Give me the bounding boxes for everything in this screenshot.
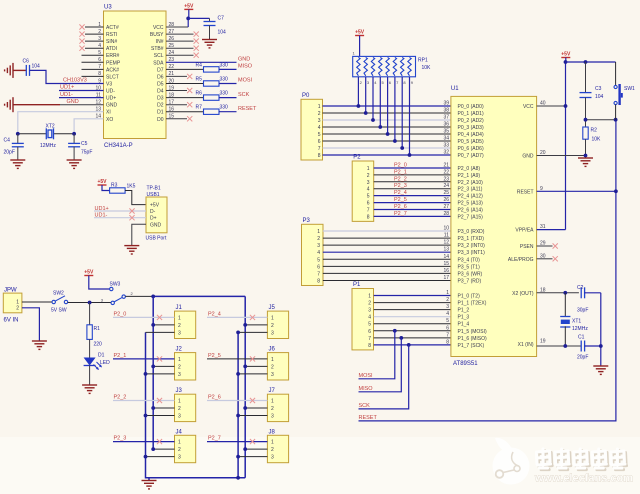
wire U1 VCC to +5V rail (537, 105, 566, 107)
svg-text:AT89S51: AT89S51 (453, 361, 478, 367)
svg-text:104: 104 (595, 94, 604, 100)
svg-text:GND: GND (522, 154, 534, 160)
wire J7 pin2 to +5V rail (245, 407, 267, 409)
junction X2 (563, 291, 567, 295)
svg-text:2: 2 (16, 306, 19, 312)
no-connect X U3 pin 21 (187, 74, 192, 79)
svg-text:P2_2: P2_2 (394, 176, 407, 182)
svg-text:4: 4 (446, 311, 449, 317)
svg-text:ATDI: ATDI (106, 46, 117, 52)
svg-text:XT1: XT1 (572, 319, 581, 325)
svg-text:RESET: RESET (359, 415, 378, 421)
svg-text:P3_5 (T1): P3_5 (T1) (458, 264, 481, 270)
svg-text:1: 1 (317, 229, 320, 235)
crystal XT2 12MHz (46, 128, 53, 139)
wire net UD1+ to U3 UD- (59, 90, 104, 92)
capacitor C7 104 (204, 22, 216, 26)
svg-text:27: 27 (443, 204, 449, 210)
svg-text:VCC: VCC (153, 25, 164, 31)
svg-text:RESET: RESET (517, 189, 534, 195)
junction +5V/C7 (186, 17, 190, 21)
svg-text:P2_5: P2_5 (394, 197, 407, 203)
svg-text:1: 1 (178, 315, 181, 321)
svg-text:13: 13 (443, 247, 449, 253)
wire J4 pin2 to +5V rail (153, 448, 174, 450)
svg-text:3: 3 (368, 308, 371, 314)
svg-text:RSTI: RSTI (106, 32, 117, 38)
svg-text:RESET: RESET (238, 106, 257, 112)
wire J5 pin3 to ground rail (238, 331, 267, 333)
svg-text:+5V: +5V (561, 52, 571, 58)
wire right jumper ground rail (237, 332, 239, 477)
wire ground to C6 (13, 69, 26, 71)
svg-text:330: 330 (220, 77, 229, 83)
svg-text:D6: D6 (157, 74, 164, 80)
svg-text:10K: 10K (592, 137, 602, 143)
svg-text:J8: J8 (269, 429, 276, 435)
svg-text:P0_7 (AD7): P0_7 (AD7) (458, 153, 484, 159)
svg-text:5: 5 (318, 132, 321, 138)
svg-text:3: 3 (178, 455, 181, 461)
no-connect X J5 pin1 (250, 315, 255, 320)
wire net P2_3 to J4 pin1 (113, 441, 175, 443)
overlines on U1 P3 names (471, 242, 484, 244)
wires P1 connector to U1 P1 port (374, 295, 451, 297)
wire U1 EA/VPP to rail (537, 229, 566, 231)
svg-text:P2_1: P2_1 (394, 169, 407, 175)
svg-text:1: 1 (368, 294, 371, 300)
wire R4 to net MISO (219, 68, 237, 70)
wire junction to R1 (89, 303, 91, 325)
svg-text:ERR#: ERR# (106, 53, 120, 59)
junction C1 rail (599, 344, 603, 348)
svg-text:P1_5 (MOSI): P1_5 (MOSI) (458, 329, 488, 335)
svg-text:SCK: SCK (238, 92, 250, 98)
wire net P2_6 to J7 pin1 (207, 400, 267, 402)
svg-text:P2_3 (A11): P2_3 (A11) (458, 187, 483, 193)
no-connect X J2 pin1 (157, 356, 162, 361)
wire R6 to net SCK (219, 97, 237, 99)
wire ground stub jumper field (148, 478, 150, 481)
wire net MOSI (359, 331, 395, 379)
resistor R7 330 (204, 109, 220, 114)
no-connect X J6 pin1 (250, 356, 255, 361)
wire C1 to rail (585, 345, 601, 347)
+5V power at RP1 (355, 30, 365, 36)
wire U3 D3 to R6 (166, 97, 204, 99)
svg-text:3: 3 (178, 414, 181, 420)
connector J7 (267, 394, 288, 421)
svg-text:P1_0 (T2): P1_0 (T2) (458, 294, 481, 300)
svg-text:2: 2 (367, 173, 370, 179)
resistor R1 220 (87, 325, 92, 340)
svg-text:5: 5 (446, 318, 449, 324)
svg-text:1: 1 (271, 357, 274, 363)
svg-text:CH341A-P: CH341A-P (104, 143, 133, 149)
svg-text:SCK: SCK (359, 403, 371, 409)
svg-text:JPW: JPW (4, 288, 17, 294)
wire SW1 to RST rail (615, 105, 617, 120)
wire C6 to U3 V3 pin (30, 70, 104, 83)
svg-text:D1: D1 (98, 353, 105, 359)
wire U1 X2 to crystal (537, 292, 579, 294)
svg-text:USB1: USB1 (147, 192, 160, 198)
svg-text:UD1-: UD1- (60, 92, 73, 98)
svg-text:PSEN: PSEN (520, 244, 534, 250)
wires P3 connector to U1 P3 port (323, 230, 451, 232)
svg-text:P3_4 (T0): P3_4 (T0) (458, 257, 481, 263)
wire U1 X1 to crystal (537, 345, 582, 347)
junction crystal right (72, 132, 76, 136)
svg-text:11: 11 (444, 233, 449, 239)
svg-text:3: 3 (271, 414, 274, 420)
svg-text:C2: C2 (577, 285, 584, 291)
svg-text:P2_2: P2_2 (114, 395, 127, 401)
wire U3 pin 21 stub (166, 75, 187, 77)
connector P3 (302, 224, 324, 285)
crystal XT1 12MHz (564, 293, 566, 317)
svg-text:P2_0 (A8): P2_0 (A8) (458, 166, 481, 172)
wire R3 to USB VCC pin (125, 191, 146, 205)
svg-text:2: 2 (178, 406, 181, 412)
wire U3 pin 24 stub (166, 54, 194, 56)
wire C2 to rail (585, 292, 601, 294)
wire SW3 to +5V rail of jumper field (125, 295, 153, 297)
connector J4 (175, 435, 196, 462)
ground under LED (82, 385, 97, 393)
no-connect X U3 pin 2 (79, 32, 84, 37)
no-connect X U3 pin 26 (194, 39, 199, 44)
svg-text:P2: P2 (353, 155, 361, 161)
wire U3 pin 15 stub (166, 118, 187, 120)
svg-text:P3_3 (INT1): P3_3 (INT1) (458, 250, 486, 256)
svg-text:39: 39 (443, 101, 449, 107)
svg-text:12MHz: 12MHz (572, 326, 588, 332)
wire U3 pin 19 stub (166, 90, 187, 92)
svg-text:15: 15 (443, 261, 449, 267)
svg-text:1: 1 (367, 166, 370, 172)
svg-text:2: 2 (178, 447, 181, 453)
svg-text:7: 7 (368, 336, 371, 342)
svg-text:MISO: MISO (238, 64, 253, 70)
svg-text:XI: XI (106, 110, 111, 116)
+5V power at USB (97, 179, 107, 185)
svg-text:5: 5 (367, 194, 370, 200)
wire U3 pin 6 stub (82, 61, 104, 63)
svg-text:3: 3 (317, 243, 320, 249)
svg-text:16: 16 (443, 268, 449, 274)
wire SW2 to junction (68, 302, 111, 304)
no-connect X J8 pin1 (250, 439, 255, 444)
ground at JPW (32, 341, 47, 349)
svg-text:X2 (OUT): X2 (OUT) (512, 291, 534, 297)
wire net P2_5 to J6 pin1 (207, 358, 267, 360)
svg-text:P2_3: P2_3 (114, 436, 127, 442)
svg-text:UD+: UD+ (106, 96, 116, 102)
wire U3 D7 to R4 (166, 68, 204, 70)
switch SW3 (110, 287, 113, 290)
wire U1 RESET pin 9 to rail (537, 190, 616, 192)
ground under crystal caps (593, 366, 608, 374)
svg-text:37: 37 (443, 115, 449, 121)
capacitor C2 30pF (581, 287, 584, 298)
svg-text:SDA: SDA (153, 60, 164, 66)
wire C3 to R2 (585, 98, 587, 128)
svg-text:3: 3 (271, 455, 274, 461)
svg-text:SLCT: SLCT (106, 74, 119, 80)
svg-text:6V IN: 6V IN (4, 318, 19, 324)
wire R7 to net RESET (219, 111, 237, 113)
svg-text:P2_6: P2_6 (208, 395, 221, 401)
svg-text:D1: D1 (157, 110, 164, 116)
ground under C4 (10, 160, 25, 168)
svg-text:SW1: SW1 (624, 86, 635, 92)
resistor R4 330 (204, 67, 220, 72)
wire U1 PSEN stub (537, 245, 553, 247)
svg-text:4: 4 (368, 315, 371, 321)
svg-text:P1_6 (MISO): P1_6 (MISO) (458, 336, 488, 342)
wire ground to U3 GND pin (13, 104, 60, 106)
svg-text:21: 21 (443, 163, 449, 169)
svg-text:USB Port: USB Port (146, 236, 167, 242)
svg-text:1: 1 (178, 357, 181, 363)
wire U3 pin 26 stub (166, 40, 194, 42)
wire JPW pin1 to SW2 (22, 301, 52, 303)
no-connect X U3 pin 27 (194, 32, 199, 37)
wire U3 pin 7 stub (82, 68, 104, 70)
junction C3 top (584, 60, 588, 64)
svg-text:SCL: SCL (154, 53, 164, 59)
svg-text:5: 5 (317, 257, 320, 263)
switch SW2 5V SW (52, 300, 55, 303)
svg-text:P1_2: P1_2 (458, 308, 470, 314)
svg-text:P0_1 (AD1): P0_1 (AD1) (458, 111, 484, 117)
svg-text:2: 2 (178, 323, 181, 329)
wire +5V to SW1 (566, 61, 616, 63)
svg-text:22: 22 (443, 169, 449, 175)
wire U3 pin 25 stub (166, 47, 194, 49)
svg-text:35: 35 (443, 129, 449, 135)
wire USB GND to ground (132, 224, 146, 245)
svg-text:2: 2 (368, 301, 371, 307)
junction +5V top (564, 60, 568, 64)
wire crystal row (18, 133, 47, 135)
svg-text:+5V: +5V (355, 30, 365, 36)
svg-text:SW3: SW3 (110, 282, 121, 288)
svg-text:VCC: VCC (523, 104, 534, 110)
svg-text:+5V: +5V (84, 270, 94, 276)
wire crystal to C5 (73, 134, 75, 144)
svg-text:J4: J4 (176, 429, 183, 435)
ground at USB (124, 246, 139, 254)
svg-text:330: 330 (220, 105, 229, 111)
svg-text:D7: D7 (157, 67, 164, 73)
svg-text:P0_6 (AD6): P0_6 (AD6) (458, 146, 484, 152)
wire net UD1- to U3 UD+ (59, 97, 104, 99)
svg-text:+5V: +5V (184, 3, 194, 9)
svg-text:X1 (IN): X1 (IN) (518, 342, 534, 348)
svg-text:MOSI: MOSI (238, 78, 253, 84)
+5V power at reset circuit (561, 52, 571, 58)
svg-text:3: 3 (318, 118, 321, 124)
svg-text:P2_0: P2_0 (394, 163, 407, 169)
svg-text:2: 2 (318, 111, 321, 117)
junction left +5V rail (151, 295, 155, 299)
no-connect X U3 pin 17 (187, 102, 192, 107)
svg-text:P2_3: P2_3 (394, 183, 407, 189)
svg-text:4: 4 (318, 125, 321, 131)
svg-text:J5: J5 (269, 305, 276, 311)
svg-text:XT2: XT2 (46, 124, 55, 130)
svg-text:1: 1 (446, 290, 449, 296)
svg-text:UD1-: UD1- (95, 213, 108, 219)
wire crystal to C4 (17, 134, 19, 144)
svg-text:10K: 10K (422, 65, 432, 71)
svg-text:C5: C5 (81, 141, 88, 147)
wire R1 to LED (89, 339, 91, 357)
resistor R5 330 (204, 81, 220, 86)
svg-text:P2_4: P2_4 (394, 190, 407, 196)
svg-text:J6: J6 (269, 347, 276, 353)
svg-text:P3_1 (TXD): P3_1 (TXD) (458, 236, 485, 242)
svg-text:3: 3 (178, 372, 181, 378)
svg-text:MISO: MISO (359, 386, 374, 392)
wire U3 XI to crystal (18, 112, 104, 134)
svg-text:1: 1 (178, 440, 181, 446)
svg-text:UD1+: UD1+ (60, 85, 74, 91)
wire J8 pin3 to ground rail (238, 456, 267, 458)
svg-text:D4: D4 (157, 89, 164, 95)
svg-text:D0: D0 (157, 117, 164, 123)
svg-text:D5: D5 (157, 81, 164, 87)
wire U3 pin 17 stub (166, 104, 187, 106)
IC U3 CH341A body (104, 11, 167, 139)
wire J2 pin3 to ground rail (146, 373, 175, 375)
svg-text:32: 32 (443, 150, 449, 156)
svg-text:75pF: 75pF (81, 150, 92, 156)
svg-text:3: 3 (446, 304, 449, 310)
junction ground rail bottom (236, 476, 240, 480)
junction P1 SCK (407, 343, 411, 347)
svg-text:CH103V3: CH103V3 (63, 77, 87, 83)
wire U3 pin 27 stub (166, 33, 194, 35)
svg-text:R1: R1 (94, 326, 101, 332)
wire U1 ALE stub (537, 258, 553, 260)
no-connect X U3 pin 19 (187, 88, 192, 93)
svg-text:6: 6 (446, 325, 449, 331)
no-connect X J4 pin1 (157, 439, 162, 444)
svg-text:TP-B1: TP-B1 (147, 186, 161, 192)
wire U3 pin 4 stub (85, 47, 104, 49)
svg-text:P2_7: P2_7 (208, 436, 221, 442)
no-connect X J1 pin1 (157, 315, 162, 320)
capacitor C5 75pF (68, 143, 80, 146)
svg-text:1K5: 1K5 (127, 184, 136, 190)
connector P2 (352, 161, 374, 221)
svg-text:2: 2 (271, 406, 274, 412)
svg-text:17: 17 (443, 275, 449, 281)
svg-text:2: 2 (271, 323, 274, 329)
svg-text:P0_5 (AD5): P0_5 (AD5) (458, 139, 484, 145)
wire U1 GND pin to ground (537, 155, 586, 157)
wires P2 connector to U1 P2 port with net labels (374, 167, 451, 169)
svg-text:P1: P1 (353, 282, 361, 288)
svg-text:ACK#: ACK# (106, 67, 119, 73)
svg-text:www.elecfans.com: www.elecfans.com (534, 473, 633, 485)
svg-text:D3: D3 (157, 96, 164, 102)
wire R2 to ground (585, 139, 587, 158)
svg-text:33: 33 (443, 143, 449, 149)
svg-text:8: 8 (317, 278, 320, 284)
svg-text:36: 36 (443, 122, 449, 128)
junction LED branch (88, 301, 92, 305)
svg-text:P2_1 (A9): P2_1 (A9) (458, 173, 481, 179)
svg-text:P3_2 (INT0): P3_2 (INT0) (458, 243, 486, 249)
capacitor C4 20pF (12, 143, 24, 146)
svg-text:P2_5: P2_5 (208, 353, 221, 359)
junction RST rail (614, 118, 618, 122)
wire +5V to SW3 top contact (89, 276, 110, 290)
+5V power at SW3 (84, 270, 94, 276)
svg-text:P0_3 (AD3): P0_3 (AD3) (458, 125, 484, 131)
wire J6 pin3 to ground rail (238, 373, 267, 375)
wire U3 XO to crystal (74, 119, 103, 134)
svg-text:P2_2 (A10): P2_2 (A10) (458, 180, 484, 186)
svg-text:1: 1 (271, 315, 274, 321)
wire U3 pin 3 stub (85, 40, 104, 42)
svg-text:20pF: 20pF (4, 150, 15, 156)
ground at C6 (5, 63, 13, 78)
svg-text:RP1: RP1 (418, 58, 428, 64)
svg-text:P2_6 (A14): P2_6 (A14) (458, 208, 484, 214)
svg-text:5: 5 (368, 322, 371, 328)
wire U3 D1 to R7 (166, 111, 204, 113)
svg-text:12: 12 (443, 240, 449, 246)
wire net P2_1 to J2 pin1 (113, 358, 175, 360)
svg-text:P2_0: P2_0 (114, 311, 127, 317)
svg-text:VPP/EA: VPP/EA (515, 228, 534, 234)
svg-text:SIN#: SIN# (106, 39, 117, 45)
svg-text:14: 14 (443, 254, 449, 260)
wire net UD1+ to USB D- (94, 210, 146, 212)
watermark CJK text 电子发烧友 (drawn as glyph strokes) (538, 451, 626, 470)
svg-text:C6: C6 (23, 59, 30, 65)
svg-text:28: 28 (443, 211, 449, 217)
no-connect X U3 pin 1 (79, 24, 84, 29)
wires RP1 pull-up verticals (357, 77, 359, 106)
svg-text:R2: R2 (591, 128, 598, 134)
svg-text:P2_7 (A15): P2_7 (A15) (458, 214, 484, 220)
svg-text:D-: D- (150, 209, 156, 215)
svg-text:P1_4: P1_4 (458, 322, 470, 328)
svg-text:UD-: UD- (106, 89, 115, 95)
svg-text:V3: V3 (106, 81, 112, 87)
wires P0 connector to U1 P0 port (323, 105, 451, 107)
svg-text:IN#: IN# (156, 39, 164, 45)
svg-text:3: 3 (178, 330, 181, 336)
connector USB1 body (146, 197, 167, 233)
svg-text:330: 330 (220, 91, 229, 97)
svg-text:P1_3: P1_3 (458, 315, 470, 321)
LED D1 (84, 358, 102, 370)
svg-text:3: 3 (367, 180, 370, 186)
svg-text:P0_4 (AD4): P0_4 (AD4) (458, 132, 484, 138)
svg-text:P3_7 (RD): P3_7 (RD) (458, 279, 482, 285)
svg-text:STB#: STB# (151, 46, 164, 52)
svg-text:PEMP: PEMP (106, 60, 121, 66)
svg-text:GND: GND (150, 222, 162, 228)
svg-text:+5V: +5V (150, 203, 160, 209)
